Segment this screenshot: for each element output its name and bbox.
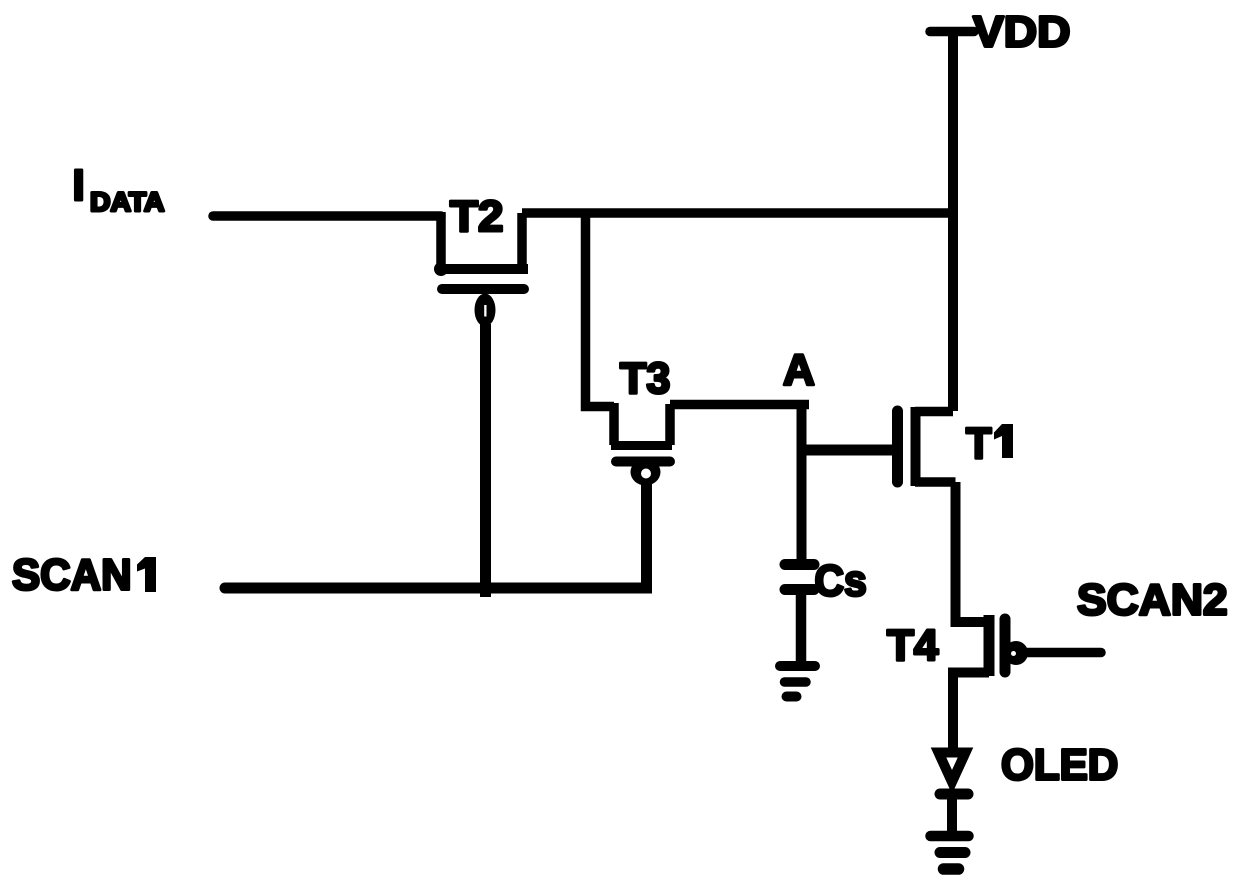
ground under Cs (780, 666, 815, 697)
svg-text:VDD: VDD (973, 7, 1071, 57)
svg-text:A: A (783, 346, 815, 395)
ground under OLED (931, 836, 969, 869)
junction dot T2 channel (434, 262, 448, 276)
transistor T1 (898, 407, 956, 486)
wire T1 to T4 (956, 482, 990, 622)
wire node A to Cs (797, 404, 807, 564)
capacitor Cs (785, 565, 814, 590)
svg-text:T2: T2 (450, 191, 503, 241)
wire T3 gate to SCAN1 (641, 480, 652, 594)
transistor T4 (989, 615, 1028, 676)
wire OLED to ground (947, 794, 957, 836)
wire node A to T1 gate (802, 445, 893, 456)
wire VDD rail (948, 32, 958, 412)
wire T3 to node A (670, 400, 809, 410)
transistor T2 (437, 212, 528, 327)
wire branch to T3 (586, 213, 615, 407)
svg-text:T3: T3 (620, 355, 670, 403)
svg-text:I: I (73, 161, 85, 210)
power VDD symbol (930, 27, 974, 37)
wire T4 to OLED (953, 673, 989, 752)
svg-text:SCAN: SCAN (12, 551, 132, 600)
svg-text:T4: T4 (887, 621, 939, 670)
svg-text:Cs: Cs (815, 557, 867, 606)
svg-text:SCAN2: SCAN2 (1077, 576, 1228, 625)
net label IDATA (73, 161, 165, 217)
transistor T3 (611, 403, 672, 486)
label SCAN1 (12, 551, 156, 600)
wire T2 to VDD rail (522, 208, 953, 218)
wire SCAN1 (225, 583, 647, 594)
label T1 (966, 419, 1013, 468)
svg-text:T: T (966, 419, 992, 468)
svg-text:OLED: OLED (1001, 741, 1118, 790)
wire Cs to ground (796, 589, 807, 661)
wire T2 gate to SCAN1 (480, 324, 491, 597)
svg-text:DATA: DATA (90, 187, 165, 217)
diode OLED (939, 753, 969, 795)
wire IDATA input (213, 211, 441, 221)
wire T4 gate to SCAN2 (1026, 648, 1101, 658)
